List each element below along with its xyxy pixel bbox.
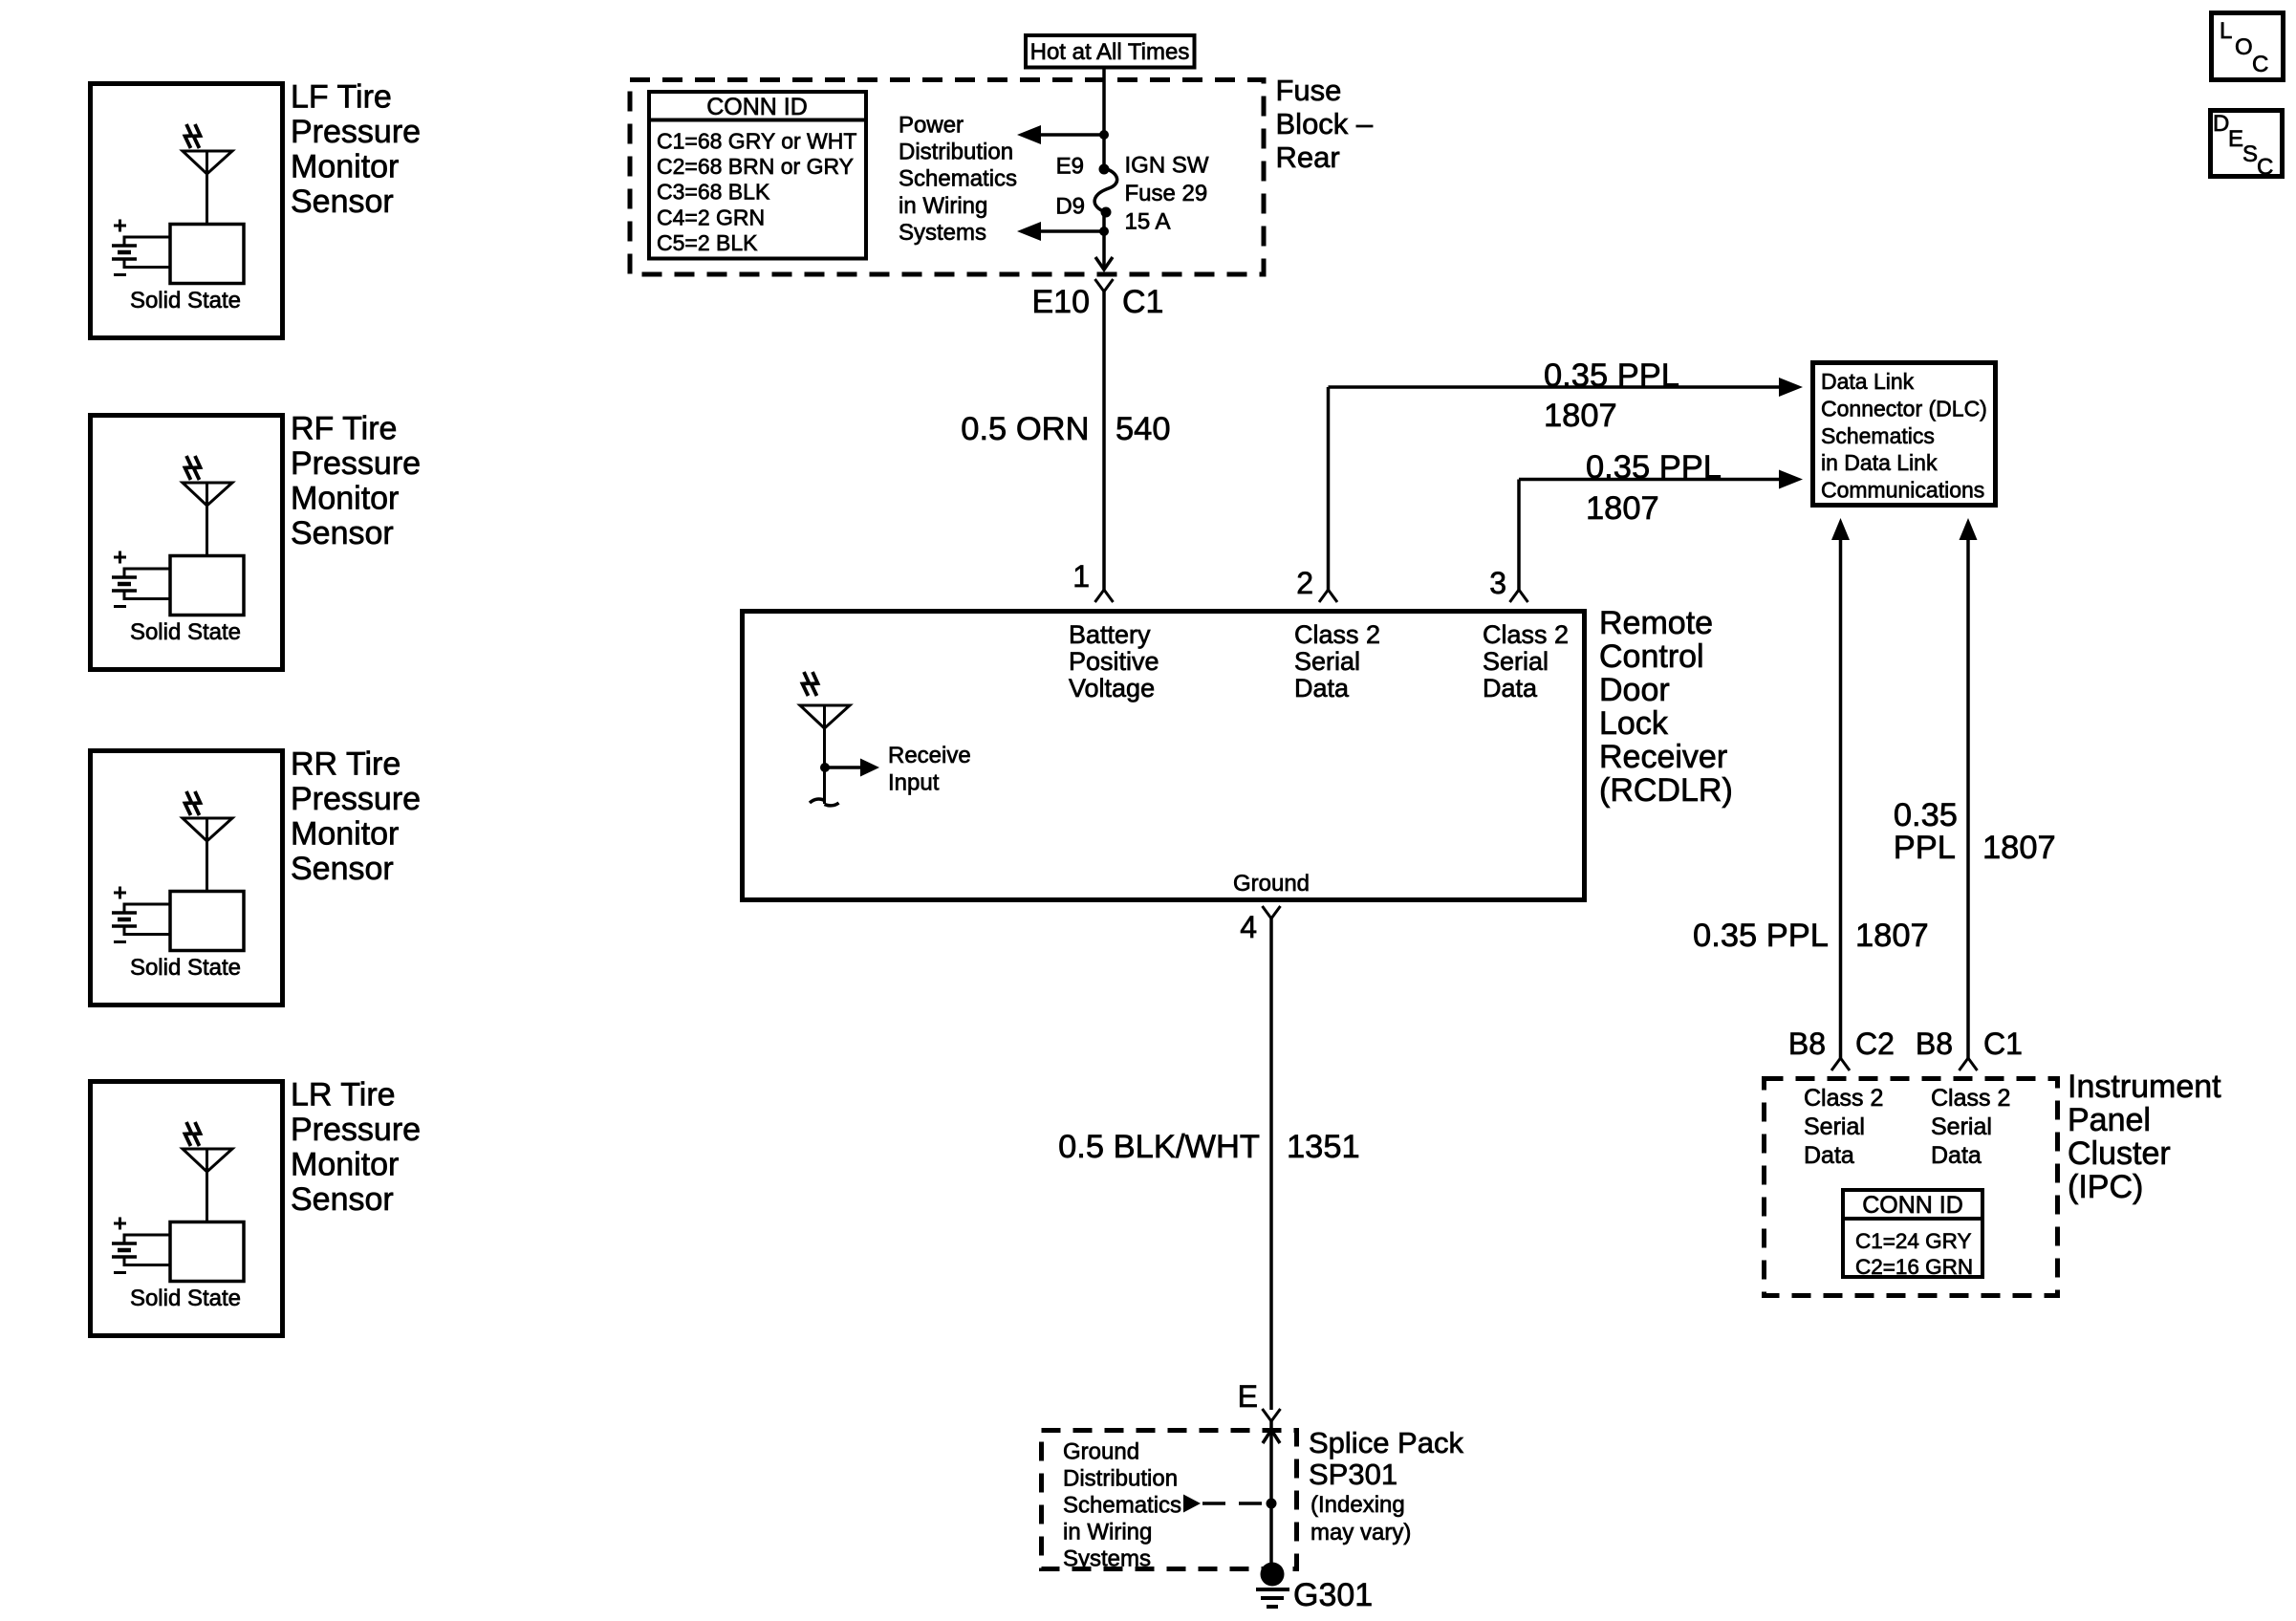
ground name label G301 [1293, 1577, 1373, 1613]
svg-text:Data Link: Data Link [1821, 369, 1915, 394]
svg-text:1351: 1351 [1287, 1129, 1360, 1165]
svg-text:Data: Data [1931, 1142, 1982, 1169]
svg-text:CONN ID: CONN ID [706, 94, 808, 120]
svg-text:SP301: SP301 [1309, 1458, 1397, 1491]
svg-text:Ground: Ground [1063, 1439, 1139, 1465]
svg-text:Solid State: Solid State [130, 1286, 241, 1311]
RR sensor internal battery [112, 887, 170, 942]
RCDLR receive antenna [800, 672, 850, 806]
"Hot at All Times" power tag box [1026, 35, 1195, 68]
svg-text:E9: E9 [1056, 154, 1084, 180]
svg-text:B8: B8 [1916, 1027, 1953, 1061]
svg-text:Monitor: Monitor [291, 149, 399, 185]
wire: hot feed into fuse [1102, 67, 1106, 169]
svg-text:1807: 1807 [1586, 490, 1659, 527]
RCDLR pin 1 [1072, 559, 1113, 602]
svg-text:RF Tire: RF Tire [291, 411, 397, 447]
svg-text:Input: Input [888, 770, 940, 796]
svg-text:E: E [1238, 1379, 1258, 1414]
svg-text:Receiver: Receiver [1599, 739, 1727, 775]
LF sensor solid-state block [170, 225, 244, 284]
svg-text:0.5 ORN: 0.5 ORN [961, 411, 1089, 447]
wire: 0.5 BLK/WHT 1351 ground run [1269, 919, 1273, 1410]
svg-text:Receive: Receive [888, 743, 971, 768]
connector E (splice pack) [1238, 1379, 1281, 1421]
IPC C1 pin function label [1931, 1085, 2010, 1169]
svg-text:C1=24 GRY: C1=24 GRY [1855, 1229, 1972, 1253]
svg-text:Data: Data [1804, 1142, 1854, 1169]
DLC note text [1821, 369, 1987, 503]
svg-text:Solid State: Solid State [130, 619, 241, 645]
svg-text:Panel: Panel [2068, 1102, 2151, 1138]
pin 1 function label [1069, 620, 1159, 702]
pin 3 function label [1483, 620, 1569, 702]
svg-text:Pressure: Pressure [291, 114, 421, 150]
svg-text:Power: Power [899, 112, 964, 138]
svg-text:Sensor: Sensor [291, 184, 394, 220]
RCDLR pin 2 [1296, 566, 1337, 602]
svg-text:may vary): may vary) [1310, 1520, 1411, 1545]
wire: class 2 serial data from pin 2 (1807) [1329, 378, 1804, 590]
svg-text:Serial: Serial [1804, 1113, 1865, 1140]
wire label 0.35 PPL 1807 (pin 3 run) [1586, 449, 1722, 527]
LR sensor solid-state block [170, 1222, 244, 1282]
svg-text:Distribution: Distribution [1063, 1466, 1178, 1492]
svg-text:Class 2: Class 2 [1804, 1085, 1883, 1112]
svg-text:RR Tire: RR Tire [291, 746, 401, 783]
svg-text:L: L [2220, 18, 2232, 44]
svg-text:Door: Door [1599, 672, 1670, 708]
LR tire pressure monitor sensor box [91, 1082, 283, 1336]
svg-text:LR Tire: LR Tire [291, 1077, 396, 1113]
svg-text:0.35 PPL: 0.35 PPL [1544, 357, 1679, 394]
svg-text:Monitor: Monitor [291, 481, 399, 517]
fuse terminal labels E9 D9 [1055, 154, 1085, 220]
power distribution note [899, 112, 1017, 246]
wire: class 2 serial data from pin 3 (1807) [1519, 470, 1803, 591]
svg-text:C1: C1 [1983, 1027, 2023, 1061]
svg-text:C2=16 GRN: C2=16 GRN [1855, 1255, 1973, 1279]
svg-text:1807: 1807 [1982, 830, 2056, 866]
svg-text:C2: C2 [1855, 1027, 1895, 1061]
svg-text:(IPC): (IPC) [2068, 1169, 2143, 1205]
svg-text:Systems: Systems [1063, 1546, 1151, 1572]
DESC corner box [2211, 111, 2283, 181]
svg-text:4: 4 [1240, 910, 1257, 944]
svg-text:Positive: Positive [1069, 647, 1159, 676]
svg-text:Cluster: Cluster [2068, 1135, 2171, 1172]
svg-text:Data: Data [1294, 674, 1350, 702]
ground pin function label [1233, 871, 1310, 897]
svg-text:Serial: Serial [1483, 647, 1549, 676]
svg-text:Solid State: Solid State [130, 955, 241, 981]
svg-text:C: C [2257, 155, 2273, 181]
splice pack internal wire with index arrow [1263, 1421, 1280, 1575]
svg-text:O: O [2235, 34, 2253, 60]
wire label 0.5 BLK/WHT 1351 [1058, 1129, 1360, 1165]
wire label 0.35 PPL 1807 (pin 2 run) [1544, 357, 1679, 434]
svg-text:Fuse 29: Fuse 29 [1125, 181, 1208, 206]
svg-text:Sensor: Sensor [291, 1181, 394, 1218]
RCDLR pin 3 [1489, 566, 1527, 602]
instrument panel cluster dashed outline [1765, 1079, 2058, 1296]
svg-text:Serial: Serial [1294, 647, 1360, 676]
ground G301 symbol [1256, 1563, 1289, 1608]
svg-text:C3=68 BLK: C3=68 BLK [657, 180, 770, 205]
pin 2 function label [1294, 620, 1380, 702]
svg-text:(Indexing: (Indexing [1310, 1492, 1405, 1518]
svg-text:in Wiring: in Wiring [899, 193, 987, 219]
LR sensor internal battery [112, 1218, 170, 1273]
svg-text:Remote: Remote [1599, 605, 1713, 641]
RF tire pressure monitor sensor box [91, 416, 283, 670]
fuse name label IGN SW Fuse 29 15 A [1125, 153, 1209, 235]
svg-text:Rear: Rear [1276, 140, 1340, 174]
RCDLR module box [743, 612, 1585, 900]
svg-text:540: 540 [1116, 411, 1171, 447]
fuse block rear dashed outline [630, 80, 1264, 275]
RF sensor name label [291, 411, 421, 552]
wire label 0.5 ORN 540 [961, 411, 1170, 447]
svg-text:1807: 1807 [1855, 918, 1929, 954]
RF sensor antenna [183, 456, 232, 554]
svg-text:C5=2 BLK: C5=2 BLK [657, 230, 758, 255]
svg-text:Schematics: Schematics [899, 166, 1017, 192]
LF sensor antenna [183, 124, 232, 223]
receive input label [888, 743, 971, 796]
svg-text:0.35 PPL: 0.35 PPL [1586, 449, 1722, 486]
svg-text:C1=68 GRY or WHT: C1=68 GRY or WHT [657, 129, 856, 154]
junction: feed to power distribution (top) [1017, 125, 1109, 144]
LF sensor "Solid State" label [130, 288, 241, 313]
ground distribution note [1063, 1439, 1181, 1572]
svg-text:E: E [2228, 126, 2243, 152]
svg-text:Connector (DLC): Connector (DLC) [1821, 396, 1987, 421]
svg-text:IGN SW: IGN SW [1125, 153, 1209, 179]
svg-text:Ground: Ground [1233, 871, 1310, 897]
svg-text:Sensor: Sensor [291, 515, 394, 551]
data link connector (DLC) note box [1813, 363, 1996, 506]
LR sensor name label [291, 1077, 421, 1219]
svg-text:Communications: Communications [1821, 478, 1984, 503]
splice pack SP301 dashed outline [1042, 1431, 1297, 1569]
wire label 0.35 PPL 1807 (C1 riser) [1894, 797, 2056, 866]
svg-text:Splice Pack: Splice Pack [1309, 1426, 1463, 1459]
connector B8 / C1 [1916, 1027, 2023, 1070]
svg-text:Monitor: Monitor [291, 1147, 399, 1183]
svg-text:D: D [2213, 111, 2229, 137]
svg-text:Serial: Serial [1931, 1113, 1992, 1140]
receive input tap [820, 759, 879, 777]
RR sensor solid-state block [170, 892, 244, 951]
svg-text:Sensor: Sensor [291, 851, 394, 887]
LR sensor "Solid State" label [130, 1286, 241, 1311]
svg-text:Voltage: Voltage [1069, 674, 1155, 702]
RCDLR pin 4 [1240, 906, 1280, 944]
connector E10 / C1 [1032, 279, 1164, 320]
wire: fuse output [1102, 212, 1106, 231]
IPC CONN ID table [1841, 1190, 1984, 1279]
svg-text:3: 3 [1489, 566, 1506, 600]
svg-text:0.35: 0.35 [1894, 797, 1958, 833]
svg-text:S: S [2242, 141, 2258, 167]
svg-text:B8: B8 [1788, 1027, 1826, 1061]
wire: class 2 serial data IPC C2 to DLC [1831, 518, 1850, 1058]
RR sensor antenna [183, 791, 232, 890]
svg-text:E10: E10 [1032, 284, 1091, 320]
LOC corner box [2212, 13, 2284, 80]
LF sensor name label [291, 79, 421, 221]
RR tire pressure monitor sensor box [91, 751, 283, 1005]
fuse block name label [1276, 74, 1374, 174]
svg-text:Schematics: Schematics [1821, 423, 1935, 448]
svg-text:Class 2: Class 2 [1483, 620, 1569, 649]
svg-text:Pressure: Pressure [291, 781, 421, 817]
svg-text:Lock: Lock [1599, 705, 1669, 742]
wire label 0.35 PPL 1807 (C2 riser) [1693, 918, 1929, 954]
svg-text:LF Tire: LF Tire [291, 79, 392, 116]
svg-text:Schematics: Schematics [1063, 1493, 1181, 1519]
svg-text:2: 2 [1296, 566, 1313, 600]
svg-text:Pressure: Pressure [291, 445, 421, 482]
dashed reference arrow to splice [1183, 1495, 1277, 1513]
svg-text:Solid State: Solid State [130, 288, 241, 313]
svg-text:0.5 BLK/WHT: 0.5 BLK/WHT [1058, 1129, 1260, 1165]
wire: fuse output leaving fuse block [1095, 231, 1113, 270]
connector B8 / C2 [1788, 1027, 1895, 1070]
RR sensor "Solid State" label [130, 955, 241, 981]
splice pack name label [1309, 1426, 1463, 1545]
RF sensor solid-state block [170, 556, 244, 616]
svg-text:Instrument: Instrument [2068, 1069, 2221, 1105]
svg-text:Monitor: Monitor [291, 816, 399, 853]
svg-text:C1: C1 [1122, 284, 1163, 320]
fuse block CONN ID table [647, 92, 868, 259]
LR sensor antenna [183, 1122, 232, 1221]
svg-text:Fuse: Fuse [1276, 74, 1342, 107]
svg-text:Pressure: Pressure [291, 1112, 421, 1148]
svg-text:Block –: Block – [1276, 107, 1374, 140]
svg-text:Class 2: Class 2 [1931, 1085, 2010, 1112]
svg-text:C2=68 BRN or GRY: C2=68 BRN or GRY [657, 154, 854, 179]
svg-text:Battery: Battery [1069, 620, 1151, 649]
svg-text:Hot at All Times: Hot at All Times [1030, 39, 1190, 65]
IPC C2 pin function label [1804, 1085, 1883, 1169]
svg-text:in Data Link: in Data Link [1821, 450, 1938, 475]
svg-text:in Wiring: in Wiring [1063, 1520, 1152, 1545]
svg-text:0.35 PPL: 0.35 PPL [1693, 918, 1829, 954]
svg-text:D9: D9 [1055, 194, 1085, 220]
fuse 29 symbol [1094, 164, 1117, 218]
svg-text:C: C [2252, 52, 2268, 77]
svg-text:G301: G301 [1293, 1577, 1373, 1613]
svg-text:Class 2: Class 2 [1294, 620, 1380, 649]
svg-text:Systems: Systems [899, 220, 986, 246]
RF sensor internal battery [112, 551, 170, 607]
svg-text:CONN ID: CONN ID [1862, 1192, 1963, 1219]
svg-text:Distribution: Distribution [899, 140, 1013, 165]
LF tire pressure monitor sensor box [91, 84, 283, 338]
LF sensor internal battery [112, 220, 170, 275]
svg-text:Control: Control [1599, 638, 1704, 675]
svg-text:15 A: 15 A [1125, 208, 1171, 234]
RR sensor name label [291, 746, 421, 888]
RF sensor "Solid State" label [130, 619, 241, 645]
svg-text:1: 1 [1072, 559, 1090, 594]
svg-text:PPL: PPL [1894, 830, 1956, 866]
svg-text:(RCDLR): (RCDLR) [1599, 772, 1733, 809]
IPC name label [2068, 1069, 2221, 1205]
svg-text:1807: 1807 [1544, 398, 1617, 434]
wire: class 2 serial data IPC C1 to DLC [1960, 518, 1978, 1058]
junction: feed to power distribution (bottom) [1017, 222, 1109, 241]
svg-text:C4=2 GRN: C4=2 GRN [657, 205, 765, 229]
svg-text:Data: Data [1483, 674, 1538, 702]
RCDLR name label [1599, 605, 1733, 809]
wire: 0.5 ORN 540 [1102, 292, 1106, 590]
